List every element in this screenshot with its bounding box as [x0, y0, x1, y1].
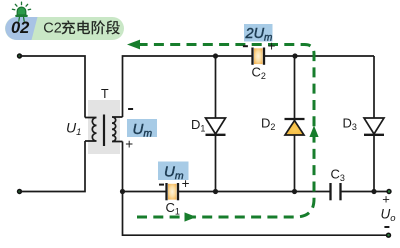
- label Um secondary: [127, 119, 157, 140]
- transformer core: [103, 115, 105, 147]
- wire bottom bus left: [123, 191, 167, 193]
- wire primary bottom: [20, 141, 86, 192]
- capacitor C3 plates: [329, 183, 331, 200]
- svg-text:+: +: [382, 192, 390, 207]
- badge title text 充电阶段 (glyph outlines): [62, 20, 120, 34]
- transformer T body: [88, 100, 120, 154]
- LED icon above badge: [12, 2, 30, 21]
- node top junction D2: [292, 53, 297, 58]
- current arrow left (top): [127, 40, 140, 50]
- output terminal plus: [386, 189, 391, 194]
- wire bottom bus right: [341, 191, 390, 193]
- title badge pill: [5, 17, 124, 40]
- diode D3 wire: [373, 56, 375, 192]
- transformer secondary winding: [112, 117, 123, 141]
- capacitor C1 plates: [165, 183, 167, 200]
- diode D1 wire: [215, 56, 217, 192]
- wire bottom bus middle: [178, 191, 331, 193]
- diode D3: [364, 118, 384, 135]
- diode D2 wire: [294, 56, 296, 192]
- wire secondary top to rail: [123, 56, 253, 117]
- C2 minus sign: [243, 45, 248, 47]
- svg-text:+: +: [268, 39, 276, 54]
- current arrow right (bottom): [185, 212, 197, 221]
- capacitor C2 plates: [251, 48, 253, 65]
- output terminal minus: [386, 233, 391, 238]
- wire primary top: [20, 56, 86, 118]
- current path dashed loop: [131, 45, 314, 218]
- capacitor C1 glow: [168, 184, 177, 200]
- svg-text:C2: C2: [43, 21, 62, 37]
- input terminal top: [17, 53, 22, 58]
- node bus junction D3: [371, 189, 376, 194]
- node secondary top junction D1: [213, 53, 218, 58]
- transformer primary winding: [85, 118, 97, 142]
- capacitor C2 glow: [254, 48, 263, 64]
- svg-text:02: 02: [11, 19, 29, 37]
- svg-text:+: +: [125, 136, 133, 151]
- svg-text:T: T: [101, 87, 109, 101]
- node bus junction D1: [213, 189, 218, 194]
- wire bottom return rail: [123, 192, 389, 236]
- label Um C1: [158, 162, 189, 183]
- label 2Um: [244, 24, 273, 43]
- diode D2 (conducting, highlighted): [285, 119, 305, 135]
- diode D1: [206, 118, 226, 135]
- node bus junction D2: [292, 189, 297, 194]
- C1 minus sign: [159, 184, 164, 186]
- wire secondary bottom: [122, 142, 124, 192]
- output minus sign: [384, 226, 389, 228]
- wire top rail right of C2: [264, 55, 374, 57]
- input terminal bottom: [17, 189, 22, 194]
- node transformer bottom junction: [120, 189, 125, 194]
- current arrow up (mid, beside D2): [309, 126, 318, 138]
- secondary minus sign: [128, 108, 133, 110]
